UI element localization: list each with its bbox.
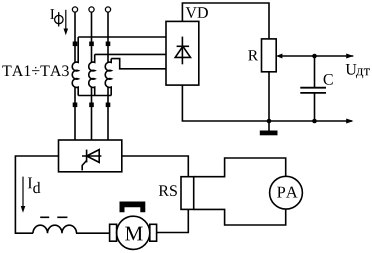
label Iф (50, 9, 54, 19)
inductor smoothing reactor (33, 225, 77, 233)
motor M brush right (150, 224, 157, 241)
current transformer TA2 secondary winding (89, 54, 95, 95)
label PA (277, 187, 298, 198)
label C (324, 74, 333, 85)
terminal phase A (72, 7, 77, 12)
node ground junction (267, 119, 272, 124)
wire motor to shunt RS (157, 209, 189, 232)
node wiper junction (312, 54, 317, 59)
label M (125, 227, 143, 241)
junction phase C lower (106, 103, 111, 108)
thyristor symbol (82, 155, 101, 157)
capacitor C (300, 87, 326, 89)
label Id (28, 178, 32, 189)
potentiometer R (262, 39, 277, 72)
wire TA1 to VD (78, 36, 166, 38)
wiper arrow of R (278, 55, 354, 57)
wire reactor to motor (76, 232, 110, 234)
junction phase A upper (73, 42, 78, 47)
ammeter PA (270, 176, 303, 209)
arrow Uдт bottom (346, 119, 353, 124)
label VD (186, 7, 208, 18)
reactor core dash 1 (40, 216, 49, 218)
arrow Iф (65, 10, 67, 30)
wire R bottom (268, 72, 270, 121)
junction phase B upper (89, 42, 94, 47)
arrow Id (22, 177, 24, 208)
wire RS to PA bottom (194, 209, 286, 225)
wire C top (314, 56, 316, 88)
wire RS to PA top (194, 158, 286, 177)
label RS (159, 185, 177, 196)
current transformer TA3 secondary winding (105, 59, 111, 96)
current transformer TA1 secondary winding (72, 37, 78, 96)
wire phase C (107, 12, 109, 62)
shunt RS (181, 177, 194, 210)
wire TA2 to VD (95, 53, 166, 55)
label R (248, 50, 258, 60)
wire converter to shunt RS (122, 156, 189, 177)
motor M brush left (110, 224, 117, 241)
wire secondary common (78, 95, 111, 97)
ground (268, 121, 270, 131)
wire VD plus to R (182, 3, 269, 39)
motor field bracket (120, 202, 146, 213)
terminal phase C (105, 7, 110, 12)
rectifier VD box (166, 21, 199, 85)
reactor core dash 2 (57, 216, 67, 218)
node C bottom junction (312, 119, 317, 124)
thyristor converter box (59, 140, 122, 172)
arrow Uдт top (346, 54, 353, 59)
wire converter to left loop (15, 156, 58, 233)
wire VD minus rail (182, 85, 352, 121)
wire C bottom (314, 93, 316, 121)
label TA1÷TA3 (2, 65, 69, 76)
label Uдт (346, 64, 357, 75)
diode symbol (181, 37, 183, 65)
junction phase B lower (89, 103, 94, 108)
junction phase C upper (106, 42, 111, 47)
motor M armature (117, 216, 150, 249)
terminal phase B (89, 7, 94, 12)
junction phase A lower (73, 103, 78, 108)
wire phase A (74, 12, 76, 62)
wire phase B (91, 12, 93, 62)
wire TA3 to VD (111, 59, 166, 69)
